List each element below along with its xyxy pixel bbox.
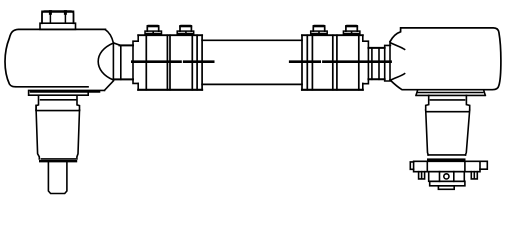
right body bottom fillet hook <box>391 74 405 80</box>
right ring 1'' <box>363 41 369 83</box>
clamp 1 band edges <box>146 35 167 90</box>
clamp bolt 3 <box>313 26 324 32</box>
left body end vertical at neck <box>112 43 114 80</box>
stud end cap <box>438 186 454 190</box>
clamp bolt 1 <box>147 26 158 32</box>
left body bottom taper to neck <box>105 81 114 90</box>
castle nut slots left <box>419 172 425 179</box>
right ball stud flange (washer under body) <box>416 90 485 95</box>
left rod end body <box>5 29 105 86</box>
left adjuster neck <box>113 45 133 79</box>
left ring 1 <box>133 41 138 83</box>
hex bolt head facet lines <box>49 11 51 23</box>
clamp bolt 4 <box>346 26 357 32</box>
left ball stud flange (washer under body) <box>29 90 105 95</box>
cotter pin loop left <box>410 162 413 169</box>
right clamp block outline <box>302 34 363 36</box>
left block sleeve edges <box>197 35 202 90</box>
clamp 2 band edge <box>191 35 193 90</box>
connecting tube <box>202 40 302 84</box>
left ball stud boss bottom washer <box>41 158 75 160</box>
left stud (threaded pin) <box>48 162 67 193</box>
left clamp block outline <box>138 34 202 36</box>
castle nut bottom cap <box>430 181 465 186</box>
castle nut slots right <box>471 172 477 179</box>
left ball stud boss <box>36 105 79 110</box>
left body top taper to neck <box>105 30 113 43</box>
right body top fillet hook <box>391 43 405 50</box>
cotter pin circle <box>444 174 449 179</box>
left ball stud upper collar <box>36 95 79 110</box>
clamp 3 band edges <box>312 35 332 90</box>
castle nut center block <box>429 172 465 182</box>
right ball stud boss <box>426 111 469 113</box>
center line (right half, dash-dot) <box>290 60 391 63</box>
left neck cone shoulder <box>113 43 120 45</box>
center line (left half, dash-dot) <box>132 60 213 63</box>
hex bolt washer <box>40 23 76 29</box>
right neck end ring at body <box>385 45 391 81</box>
clamp bolt 2 <box>180 26 191 32</box>
right rod end body <box>390 28 501 90</box>
right stud rubber shadow (black bar) <box>427 158 466 161</box>
right ball stud upper collar <box>426 95 470 110</box>
left body end concave arc <box>98 43 113 80</box>
cotter pin end tab right <box>480 161 487 169</box>
right block sleeve edges <box>302 35 307 90</box>
right body end vertical at neck <box>389 42 391 80</box>
center ring between clamps 3-4 <box>336 35 338 90</box>
hex bolt head on left body <box>42 11 74 23</box>
clamp 4 band edge <box>358 35 360 90</box>
castle nut wide tier <box>414 161 480 171</box>
right adjuster neck <box>368 48 384 79</box>
center ring between clamps 1-2 <box>169 35 171 90</box>
